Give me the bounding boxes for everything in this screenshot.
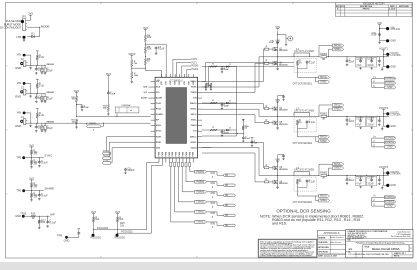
svg-text:BSC050N: BSC050N	[279, 110, 288, 112]
svg-text:2.2nF: 2.2nF	[224, 106, 230, 108]
svg-text:SDA: SDA	[143, 86, 148, 89]
svg-text:For Customer Use Only: For Customer Use Only	[391, 235, 411, 238]
svg-text:3V3: 3V3	[106, 72, 111, 76]
svg-text:0R: 0R	[225, 184, 228, 187]
svg-text:DATE: January 5, 2007: DATE: January 5, 2007	[318, 255, 337, 258]
svg-text:VDD33: VDD33	[190, 147, 196, 149]
svg-text:VINSNS2: VINSNS2	[46, 92, 54, 94]
svg-text:SNS1+: SNS1+	[334, 44, 343, 47]
svg-text:100pF: 100pF	[127, 168, 135, 172]
svg-text:2.2nF: 2.2nF	[224, 69, 230, 71]
svg-text:3V3: 3V3	[91, 210, 96, 214]
svg-text:PWM: PWM	[172, 152, 174, 157]
svg-text:SNS1-: SNS1-	[334, 48, 342, 51]
svg-text:V-: V-	[373, 199, 375, 202]
svg-text:0.1uF: 0.1uF	[309, 62, 316, 65]
svg-text:VDD: VDD	[175, 80, 177, 85]
svg-text:SHARE: SHARE	[44, 187, 54, 191]
svg-text:GND: GND	[390, 125, 396, 128]
svg-text:PWM3: PWM3	[196, 189, 205, 193]
svg-text:1.0V/30A: 1.0V/30A	[390, 54, 401, 57]
svg-text:SNS1+: SNS1+	[320, 76, 328, 79]
svg-text:TSNS1: TSNS1	[196, 199, 205, 203]
svg-text:GND: GND	[387, 206, 392, 208]
svg-text:0R: 0R	[322, 119, 325, 121]
svg-text:6-12-07: 6-12-07	[389, 9, 395, 11]
svg-text:PGD1: PGD1	[192, 68, 199, 71]
svg-text:VOUT3: VOUT3	[379, 165, 389, 169]
svg-text:47uF: 47uF	[356, 65, 362, 67]
svg-text:RUN1: RUN1	[103, 155, 110, 158]
svg-text:TSNS0: TSNS0	[190, 92, 196, 94]
svg-text:D1: D1	[31, 31, 35, 35]
svg-text:CHECKED:: CHECKED:	[318, 242, 328, 244]
svg-text:R33: R33	[211, 192, 216, 195]
svg-text:XAL7070-472MEB: XAL7070-472MEB	[294, 109, 314, 112]
svg-text:3V3: 3V3	[143, 26, 148, 30]
svg-text:VDD: VDD	[179, 80, 181, 85]
svg-text:GND: GND	[390, 65, 396, 68]
svg-text:and R16.: and R16.	[272, 222, 287, 226]
svg-text:0R: 0R	[225, 224, 228, 227]
svg-text:2.2k: 2.2k	[39, 83, 45, 87]
svg-text:3V3: 3V3	[29, 176, 34, 180]
svg-text:XAL7070-472MEB: XAL7070-472MEB	[294, 169, 314, 172]
svg-text:2.2k: 2.2k	[39, 113, 45, 117]
svg-text:22uF: 22uF	[349, 120, 355, 123]
svg-text:0.1uF: 0.1uF	[41, 194, 48, 198]
svg-text:ASEL: ASEL	[156, 124, 162, 127]
svg-text:PWM: PWM	[182, 152, 184, 157]
svg-text:22uF: 22uF	[349, 179, 355, 182]
svg-text:R32: R32	[211, 182, 216, 185]
svg-text:OPT DCR SENSE1: OPT DCR SENSE1	[293, 83, 313, 85]
svg-text:TSNS1: TSNS1	[190, 125, 197, 127]
svg-text:PGOOD2: PGOOD2	[115, 237, 126, 240]
svg-text:GND: GND	[387, 87, 392, 89]
svg-text:VOSNS1+: VOSNS1+	[385, 78, 396, 80]
svg-text:47uF: 47uF	[356, 125, 362, 127]
svg-text:VOSNS3-: VOSNS3-	[385, 201, 395, 203]
svg-text:R26: R26	[31, 213, 36, 216]
svg-text:22uF: 22uF	[349, 60, 355, 63]
svg-text:OPT DCR SENSE2: OPT DCR SENSE2	[293, 143, 313, 145]
svg-text:VOUT1: VOUT1	[379, 46, 389, 50]
svg-text:GND: GND	[387, 146, 392, 148]
svg-text:GND: GND	[390, 184, 396, 187]
svg-text:PGOOD2: PGOOD2	[121, 230, 133, 234]
svg-text:0R: 0R	[225, 214, 228, 217]
svg-text:PGOOD1: PGOOD1	[91, 237, 102, 240]
svg-text:BSC010N: BSC010N	[279, 64, 288, 66]
svg-text:APPROVALS: APPROVALS	[324, 231, 340, 235]
svg-text:0R: 0R	[225, 194, 228, 197]
svg-text:Andy Gardner: Andy Gardner	[330, 236, 344, 239]
svg-text:PWM: PWM	[189, 152, 191, 157]
svg-text:SYNC: SYNC	[44, 154, 52, 158]
svg-text:R34: R34	[211, 202, 216, 205]
svg-text:3V3: 3V3	[29, 143, 34, 147]
svg-text:PGD0: PGD0	[156, 103, 161, 105]
svg-text:G: G	[373, 85, 375, 88]
svg-text:10uF: 10uF	[47, 98, 53, 101]
svg-text:TP6: TP6	[16, 188, 21, 192]
svg-text:SNS2-: SNS2-	[334, 107, 342, 110]
svg-text:0.1uF: 0.1uF	[50, 220, 57, 224]
svg-text:Polyphase 3 Output Step Down S: Polyphase 3 Output Step Down Supply with…	[356, 242, 405, 245]
svg-text:VDD: VDD	[161, 80, 163, 85]
svg-text:10k: 10k	[147, 47, 152, 51]
svg-text:OPTIONAL DCR SENSING: OPTIONAL DCR SENSING	[276, 208, 331, 213]
svg-text:SDA: SDA	[156, 86, 161, 89]
svg-text:SNS2+: SNS2+	[320, 135, 328, 138]
svg-text:SNS2-: SNS2-	[320, 140, 327, 143]
svg-text:R0803: R0803	[320, 172, 328, 175]
svg-text:0.1uF: 0.1uF	[158, 46, 165, 50]
svg-text:PWM: PWM	[179, 152, 181, 157]
svg-text:SNS3+: SNS3+	[334, 163, 343, 166]
svg-text:LTC CONFIDENTIAL-FOR CUSTOMER: LTC CONFIDENTIAL-FOR CUSTOMER USE ONLY	[349, 253, 391, 256]
svg-text:SNS1-: SNS1-	[320, 80, 327, 83]
svg-text:PWM: PWM	[176, 152, 178, 157]
svg-text:TSNS3: TSNS3	[196, 220, 205, 224]
svg-text:0R: 0R	[322, 59, 325, 61]
svg-text:3V3: 3V3	[28, 12, 33, 16]
svg-text:10uF: 10uF	[47, 127, 53, 130]
svg-text:SNS2+: SNS2+	[334, 104, 343, 107]
svg-text:PROTO: PROTO	[363, 9, 370, 11]
svg-text:APPROVED:: APPROVED:	[318, 246, 329, 249]
svg-text:RUN1: RUN1	[156, 142, 162, 144]
svg-text:PWM: PWM	[162, 152, 164, 157]
svg-text:MODE: MODE	[41, 25, 49, 29]
svg-text:0.1uF: 0.1uF	[41, 161, 48, 165]
svg-text:COUT: COUT	[367, 178, 374, 180]
svg-text:G: G	[373, 204, 375, 207]
svg-text:COUT: COUT	[367, 118, 374, 120]
svg-text:ISNS1-: ISNS1-	[190, 142, 197, 144]
svg-text:GND: GND	[15, 66, 21, 70]
svg-text:VOSNS3+: VOSNS3+	[385, 197, 396, 199]
svg-text:0.1uF: 0.1uF	[245, 138, 251, 140]
svg-text:TSNS2: TSNS2	[196, 209, 205, 213]
svg-text:VDD: VDD	[166, 80, 168, 85]
svg-text:SNS1-: SNS1-	[191, 120, 197, 122]
svg-text:JP1: JP1	[22, 15, 27, 19]
svg-text:COUT: COUT	[367, 59, 374, 61]
svg-text:3V3: 3V3	[115, 210, 120, 214]
svg-text:V-: V-	[373, 140, 375, 143]
svg-text:1.2V/30A: 1.2V/30A	[390, 113, 401, 116]
svg-text:BSC010N: BSC010N	[279, 124, 288, 126]
svg-text:VOSNS2-: VOSNS2-	[385, 142, 395, 144]
svg-text:VIN: VIN	[275, 25, 280, 29]
svg-text:VINSNS1: VINSNS1	[46, 64, 54, 66]
svg-text:VDD: VDD	[170, 80, 172, 85]
svg-text:R36: R36	[211, 222, 216, 225]
svg-text:x2: x2	[130, 110, 132, 112]
svg-text:PWM: PWM	[165, 152, 167, 157]
svg-text:R0802: R0802	[320, 112, 328, 115]
svg-text:GND: GND	[156, 147, 161, 149]
svg-text:0R: 0R	[225, 174, 228, 177]
svg-text:DESCRIPTION: DESCRIPTION	[360, 6, 373, 8]
svg-text:PWM: PWM	[186, 152, 188, 157]
svg-text:ALERT: ALERT	[141, 97, 148, 100]
svg-text:330uF: 330uF	[367, 65, 374, 67]
svg-text:PWM1: PWM1	[196, 169, 205, 173]
svg-text:RUN0: RUN0	[103, 150, 110, 153]
svg-text:PWM: PWM	[159, 152, 161, 157]
svg-text:0R: 0R	[225, 204, 228, 207]
svg-text:VOSNS2+: VOSNS2+	[385, 138, 396, 140]
svg-text:ECO: ECO	[341, 6, 345, 8]
svg-text:ISNS0+: ISNS0+	[190, 103, 198, 105]
svg-text:COUT: COUT	[356, 59, 363, 61]
svg-text:0R: 0R	[322, 178, 325, 180]
svg-text:10k: 10k	[147, 35, 152, 39]
svg-text:3V3: 3V3	[74, 89, 79, 93]
svg-text:VDD: VDD	[188, 80, 190, 85]
svg-text:COUT: COUT	[356, 178, 363, 180]
svg-text:BSC050N: BSC050N	[279, 169, 288, 171]
svg-text:VIN: VIN	[17, 81, 21, 85]
svg-text:Linear Technology applications: Linear Technology applications engineeri…	[260, 254, 312, 257]
svg-text:1.5V/30A: 1.5V/30A	[390, 173, 401, 176]
svg-text:10uF: 10uF	[371, 34, 377, 37]
svg-text:COUT: COUT	[356, 118, 363, 120]
svg-text:VOUT2: VOUT2	[379, 106, 389, 110]
svg-text:0.1uF: 0.1uF	[309, 121, 316, 124]
svg-text:10uF: 10uF	[47, 69, 53, 72]
svg-text:TP5: TP5	[16, 155, 21, 159]
svg-text:TITLE:: TITLE:	[365, 246, 371, 248]
svg-text:VIN: VIN	[17, 111, 21, 115]
svg-text:WP: WP	[50, 212, 55, 216]
svg-text:TP8: TP8	[57, 233, 63, 237]
svg-text:0.1uF: 0.1uF	[309, 180, 316, 183]
svg-text:VIN: VIN	[377, 21, 382, 25]
svg-text:VDD: VDD	[184, 80, 186, 85]
svg-text:Demo Circuit 1254A: Demo Circuit 1254A	[372, 247, 400, 251]
svg-text:MFG RLSE:: MFG RLSE:	[318, 252, 329, 254]
svg-text:PWM: PWM	[169, 152, 171, 157]
svg-text:FORCED CONTINUOUS: FORCED CONTINUOUS	[0, 26, 21, 30]
svg-text:DRAWN:: DRAWN:	[318, 237, 326, 240]
svg-text:VR30: VR30	[128, 52, 135, 56]
svg-text:APPROVED: APPROVED	[399, 5, 410, 8]
svg-text:ISNS0-: ISNS0-	[190, 109, 197, 111]
svg-text:PGOOD1: PGOOD1	[97, 226, 109, 230]
svg-text:RUN0: RUN0	[156, 136, 161, 138]
svg-text:G: G	[373, 144, 375, 147]
svg-text:XAL7070-472MEB: XAL7070-472MEB	[294, 50, 314, 53]
svg-text:330uF: 330uF	[367, 125, 374, 127]
svg-text:VIN: VIN	[17, 53, 21, 57]
svg-text:BSC010N: BSC010N	[279, 183, 288, 185]
svg-text:0.1uF: 0.1uF	[84, 107, 90, 109]
svg-text:SNS1+: SNS1+	[190, 114, 197, 116]
svg-text:0: 0	[93, 130, 94, 132]
svg-text:OPT DCR SENSE3: OPT DCR SENSE3	[293, 202, 313, 204]
svg-text:SYNC: SYNC	[103, 159, 110, 162]
svg-text:47uF: 47uF	[356, 184, 362, 186]
svg-text:GND: GND	[64, 238, 70, 242]
svg-text:GND: GND	[390, 38, 396, 42]
svg-text:PWM2: PWM2	[196, 179, 205, 183]
svg-text:R31: R31	[211, 172, 216, 175]
svg-text:SHARE: SHARE	[156, 113, 163, 116]
svg-text:SNS3-: SNS3-	[320, 199, 327, 202]
svg-text:BSC050N: BSC050N	[279, 50, 288, 52]
svg-text:ALERT: ALERT	[156, 97, 163, 100]
svg-text:Mike Peters: Mike Peters	[330, 241, 342, 244]
svg-text:VOSNS1-: VOSNS1-	[385, 83, 395, 85]
svg-text:C14 150uF: C14 150uF	[121, 104, 131, 107]
svg-text:V-: V-	[373, 80, 375, 83]
svg-text:PGD1: PGD1	[156, 109, 162, 111]
svg-text:330uF: 330uF	[367, 184, 374, 186]
svg-text:GND: GND	[15, 124, 21, 128]
svg-text:SNS3+: SNS3+	[320, 195, 328, 198]
svg-text:R35: R35	[211, 212, 216, 215]
svg-text:SNS3-: SNS3-	[334, 167, 342, 170]
svg-text:ISNS1+: ISNS1+	[190, 136, 198, 138]
svg-text:SNS0-: SNS0-	[191, 87, 197, 89]
svg-text:VO0: VO0	[193, 98, 197, 100]
svg-text:GND: GND	[15, 95, 21, 99]
svg-text:R0801: R0801	[320, 53, 328, 56]
svg-text:4.5V-14V: 4.5V-14V	[390, 28, 400, 31]
svg-text:VDD: VDD	[193, 80, 195, 85]
svg-text:2.2k: 2.2k	[39, 55, 45, 59]
svg-text:PWM: PWM	[193, 152, 195, 157]
svg-text:LTB: LTB	[16, 35, 21, 39]
svg-text:SYNC: SYNC	[156, 131, 162, 133]
